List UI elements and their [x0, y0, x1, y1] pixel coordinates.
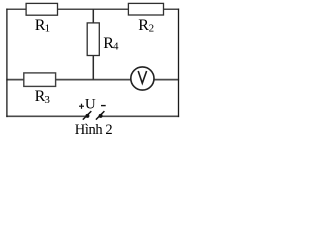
- svg-text:1: 1: [45, 23, 51, 35]
- svg-text:2: 2: [149, 23, 155, 35]
- resistor R2: [128, 3, 163, 15]
- wire top: [6, 8, 179, 10]
- resistor R3: [24, 73, 56, 87]
- terminal dot +: [85, 114, 89, 118]
- svg-text:3: 3: [44, 94, 50, 106]
- svg-text:R: R: [138, 17, 149, 34]
- voltmeter V: [131, 67, 154, 90]
- wire left frame: [6, 9, 8, 118]
- wire bottom right segment: [102, 115, 179, 117]
- label minus: [101, 105, 106, 107]
- wire right frame: [178, 9, 180, 118]
- svg-text:4: 4: [113, 41, 119, 53]
- wire bottom left segment: [6, 115, 86, 117]
- label +: [79, 105, 84, 107]
- svg-text:U: U: [85, 96, 96, 112]
- wire middle: [6, 79, 179, 81]
- resistor R1: [26, 3, 57, 15]
- wire R4 branch: [92, 9, 94, 79]
- svg-text:Hình 2: Hình 2: [75, 122, 113, 138]
- resistor R4: [87, 23, 99, 56]
- terminal dot -: [99, 114, 103, 118]
